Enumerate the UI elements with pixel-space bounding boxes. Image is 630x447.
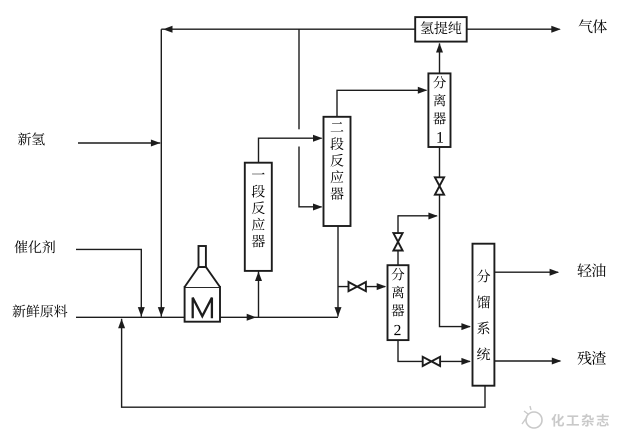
- wire: catalyst feed line: [76, 249, 145, 316]
- valve: separator 2 overhead valve: [393, 233, 402, 250]
- wire: fresh feed main line: [76, 314, 338, 321]
- wire: first reactor overhead to second reactor: [259, 135, 323, 163]
- valve: separator 2 bottoms valve: [423, 357, 440, 366]
- label: gas product 气体: [579, 19, 607, 33]
- wire: purified gas outlet: [467, 26, 561, 33]
- vessel: first stage reactor 一段反应器: [245, 163, 272, 271]
- watermark: 化工杂志 journal logo: [522, 406, 609, 428]
- label: light oil product 轻油: [577, 263, 605, 277]
- vessel: separator 1 分离器1: [428, 73, 450, 147]
- wire: light oil outlet: [494, 269, 559, 276]
- wire: separator 2 bottoms to fractionation system: [398, 340, 471, 365]
- label: fresh feed 新鲜原料: [13, 305, 68, 318]
- wire: fresh hydrogen feed arrow: [78, 140, 160, 147]
- wire: hydrogen quench line to second reactor (with crossing break): [299, 29, 323, 210]
- label: residue product 残渣: [577, 351, 605, 365]
- label: catalyst 催化剂: [14, 240, 55, 253]
- wire: separator 1 bottoms to fractionation system: [440, 147, 471, 330]
- wire: fractionator bottoms recycle line: [118, 319, 485, 408]
- valve: separator 1 letdown valve: [435, 177, 444, 194]
- unit: hydrogen purification 氢提纯: [415, 17, 467, 41]
- wire: second reactor bottoms line down to feed junction: [335, 226, 342, 317]
- wire: recycle hydrogen top line: [161, 26, 415, 33]
- vessel: separator 2 分离器2: [388, 265, 409, 340]
- wire: recycle hydrogen down line: [158, 29, 165, 316]
- label: fresh hydrogen 新氢: [18, 133, 45, 146]
- wire: separator 2 overhead gas line: [398, 213, 438, 266]
- mixer M1 (feed mixer): [185, 246, 220, 322]
- vessel: second stage reactor 二段反应器: [324, 117, 351, 226]
- wire: riser into first reactor: [255, 271, 262, 317]
- wire: residue outlet: [494, 358, 561, 365]
- wire: second reactor overhead to separator 1: [337, 87, 427, 117]
- wire: letdown line into separator 2: [338, 283, 386, 290]
- vessel: fractionation system 分馏系统: [473, 244, 495, 386]
- wire: separator 1 overhead to hydrogen purifier: [436, 43, 443, 73]
- valve: letdown valve before separator 2: [349, 282, 366, 291]
